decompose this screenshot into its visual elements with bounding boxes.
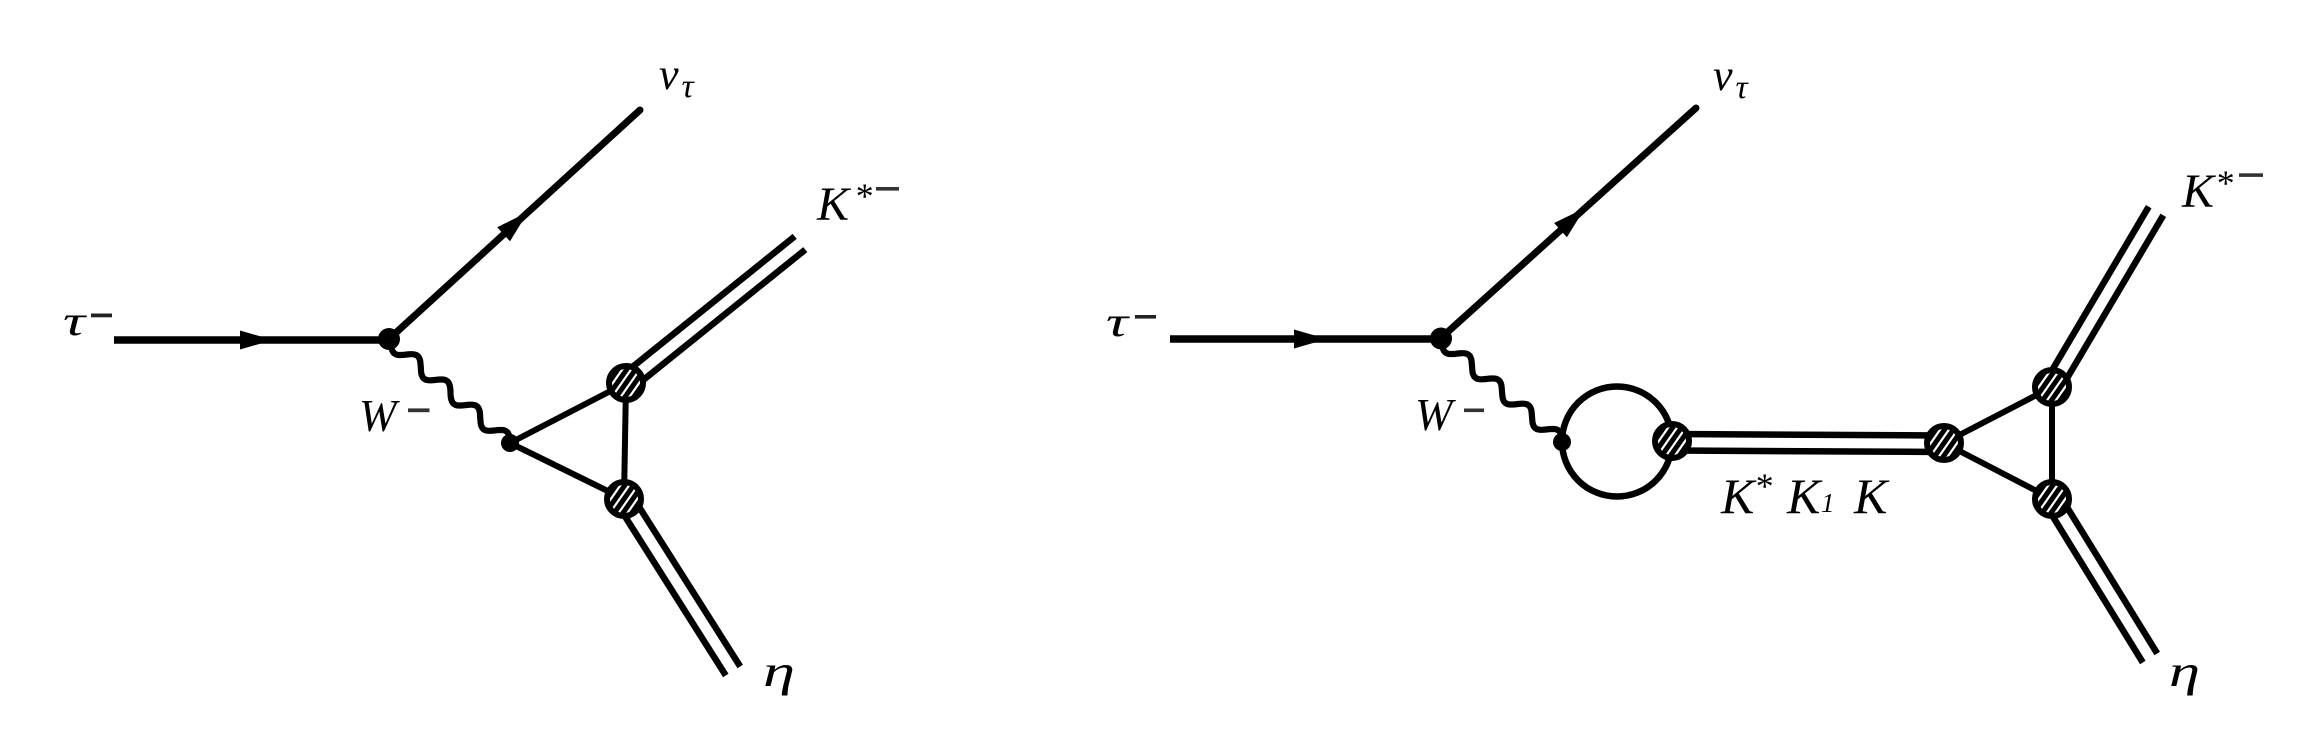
vertex dot: W-hadron vertex (left) xyxy=(501,434,519,452)
wire: incoming tau line (right diagram) xyxy=(1170,335,1441,343)
svg-text:K*K1K: K*K1K xyxy=(1720,466,1890,524)
wire: triangle edge left blob to bottom blob (right) xyxy=(1944,443,2052,499)
wire: triangle edge left blob to top blob (right) xyxy=(1944,387,2052,443)
blob: top hatched vertex (right triangle) xyxy=(2019,353,2084,420)
svg-text:η: η xyxy=(763,647,795,696)
blob: loop hatched vertex (right) xyxy=(1639,407,1704,474)
svg-text:W: W xyxy=(359,391,400,441)
blob: left hatched vertex (right triangle) xyxy=(1911,409,1976,476)
wire: K*- double line (left) xyxy=(631,250,805,390)
svg-text:*: * xyxy=(2215,163,2233,203)
blob: top hatched vertex (left triangle) xyxy=(593,349,658,416)
wire: W boson wavy line (right) xyxy=(1442,341,1562,442)
arrowhead on tau line (left) xyxy=(240,331,273,350)
wire: neutrino line (left diagram) xyxy=(389,110,640,339)
wire: W boson wavy line (left) xyxy=(391,342,510,443)
vertex dot: W-loop vertex (right) xyxy=(1553,433,1571,451)
wire: neutrino line (right diagram) xyxy=(1441,108,1696,338)
svg-text:τ: τ xyxy=(1106,300,1131,346)
wire: K* K1 K horizontal double line (right) xyxy=(1672,434,1944,436)
arrowhead on neutrino line (left) xyxy=(497,212,528,241)
wire: eta double line (right) xyxy=(2045,504,2143,663)
blob: bottom hatched vertex (right triangle) xyxy=(2019,465,2084,532)
vertex dot: tau-W vertex (right) xyxy=(1430,328,1452,350)
loop circle (right) xyxy=(1562,387,1672,497)
blob: bottom hatched vertex (left triangle) xyxy=(591,465,656,532)
wire: triangle edge W-vertex to top blob (left) xyxy=(510,383,626,443)
svg-text:η: η xyxy=(2169,647,2200,696)
wire: triangle edge between blobs (left) xyxy=(624,383,626,499)
wire: K*- double line (right) xyxy=(2059,215,2163,391)
svg-text:K: K xyxy=(816,178,852,231)
svg-text:*: * xyxy=(854,176,872,216)
arrowhead on neutrino line (right) xyxy=(1554,208,1585,237)
wire: triangle edge between blobs (right) xyxy=(2049,387,2055,499)
arrowhead on tau line (right) xyxy=(1294,330,1327,349)
wire: incoming tau line (left diagram) xyxy=(114,336,390,344)
vertex dot: tau-W vertex (left) xyxy=(378,328,400,350)
svg-text:W: W xyxy=(1415,390,1456,440)
wire: triangle edge W-vertex to bottom blob (left) xyxy=(510,443,624,499)
svg-text:τ: τ xyxy=(63,299,88,345)
svg-text:K: K xyxy=(2181,165,2217,218)
wire: eta double line (left) xyxy=(617,504,726,676)
